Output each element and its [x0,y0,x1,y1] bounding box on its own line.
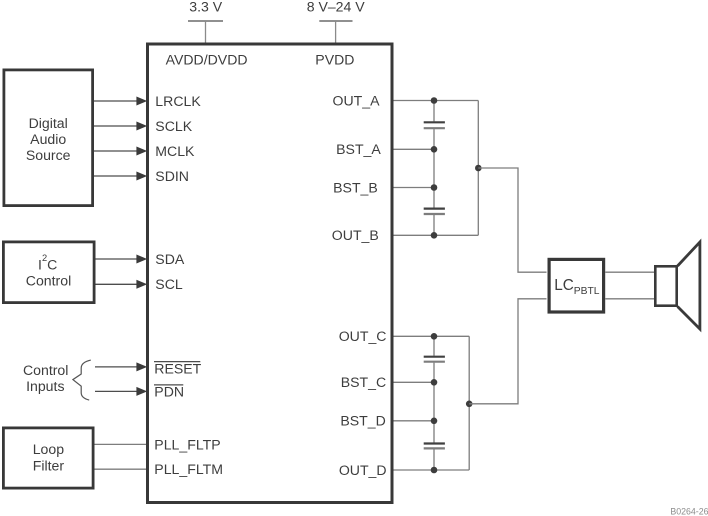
brace for control inputs [73,360,91,400]
svg-text:OUT_C: OUT_C [339,328,387,344]
wire PLL_FLTM [95,468,147,470]
svg-text:PVDD: PVDD [315,51,354,67]
block: Loop Filter [3,428,93,488]
svg-text:8 V–24 V: 8 V–24 V [307,0,366,15]
block: Digital Audio Source [4,70,93,206]
svg-text:OUT_A: OUT_A [333,92,381,108]
wire right bus C/D [468,336,470,470]
wire OUT_A [394,100,479,102]
svg-text:Filter: Filter [33,457,65,473]
svg-text:B0264-26: B0264-26 [670,507,708,516]
wire PDN with arrowhead [95,387,147,396]
wire OUT_C [394,335,470,337]
svg-text:SCL: SCL [155,276,183,292]
junction bus C/D midpoint [466,401,473,408]
svg-text:Control: Control [26,273,71,289]
svg-text:OUT_D: OUT_D [339,462,387,478]
wire 8V-24V supply T-bar [319,21,352,44]
junction BST_D [431,418,438,425]
svg-text:LRCLK: LRCLK [155,93,201,109]
junction BST_A [431,146,438,153]
wire BST_D [394,420,435,422]
svg-text:PLL_FLTP: PLL_FLTP [154,436,220,452]
wire BST_A [394,148,435,150]
pin label PDN (active low, overline) [154,383,184,399]
wire upper feed to LC filter [478,168,546,272]
bootstrap capacitor C_A [424,122,445,128]
junction OUT_D [431,467,438,474]
wire PLL_FLTP [95,443,147,445]
wire right bus A/B [477,101,479,236]
wire bootstrap bus A/B vertical [433,101,435,236]
wire BST_C [394,381,435,383]
wire LC to speaker plus [605,271,655,273]
svg-text:Loop: Loop [33,441,65,457]
svg-text:SCLK: SCLK [155,118,192,134]
wire bootstrap bus C/D vertical [433,336,435,470]
svg-text:SDA: SDA [155,251,185,267]
wire MCLK with arrowhead [94,147,147,156]
junction OUT_A [431,97,438,104]
wire LC to speaker minus [605,298,655,300]
svg-text:OUT_B: OUT_B [332,227,379,243]
label Control Inputs [23,362,68,394]
wire LRCLK with arrowhead [94,97,147,106]
svg-text:PLL_FLTM: PLL_FLTM [154,461,223,477]
wire OUT_B [394,234,479,236]
svg-text:BST_C: BST_C [341,374,386,390]
wire SCLK with arrowhead [94,122,147,131]
svg-text:BST_A: BST_A [336,141,381,157]
block: I2C Control [3,242,94,303]
junction bus A/B midpoint [475,165,482,172]
main IC block U1 class-D amplifier [148,44,393,503]
bootstrap capacitor C_D [424,444,445,449]
svg-text:Control: Control [23,362,68,378]
wire lower feed to LC filter [469,299,546,404]
junction OUT_C [431,333,438,340]
svg-text:BST_D: BST_D [340,413,385,429]
junction OUT_B [431,232,438,239]
svg-text:PDN: PDN [154,383,184,399]
svg-text:RESET: RESET [154,360,201,376]
svg-text:Audio: Audio [30,131,66,147]
wire 3.3V supply T-bar [188,21,223,44]
wire BST_B [394,187,435,189]
wire RESET with arrowhead [95,362,147,371]
wire SDA with arrowhead [96,255,148,264]
svg-text:BST_B: BST_B [333,179,378,195]
bootstrap capacitor C_C [424,357,445,362]
svg-text:Digital: Digital [29,115,68,131]
wire SDIN with arrowhead [94,172,147,181]
svg-text:Source: Source [26,147,71,163]
svg-text:Inputs: Inputs [26,378,64,394]
bootstrap capacitor C_B [424,209,445,214]
speaker LS1 [655,242,700,329]
block: LC_PBTL output filter [549,259,604,312]
svg-text:3.3 V: 3.3 V [189,0,223,15]
svg-text:MCLK: MCLK [155,143,195,159]
svg-text:SDIN: SDIN [155,168,189,184]
svg-text:I2C: I2C [38,253,57,273]
wire OUT_D [394,469,470,471]
pin label RESET (active low, overline) [154,360,202,376]
wire SCL with arrowhead [96,280,148,289]
junction BST_B [431,184,438,191]
junction BST_C [431,379,438,386]
svg-text:AVDD/DVDD: AVDD/DVDD [166,51,248,67]
